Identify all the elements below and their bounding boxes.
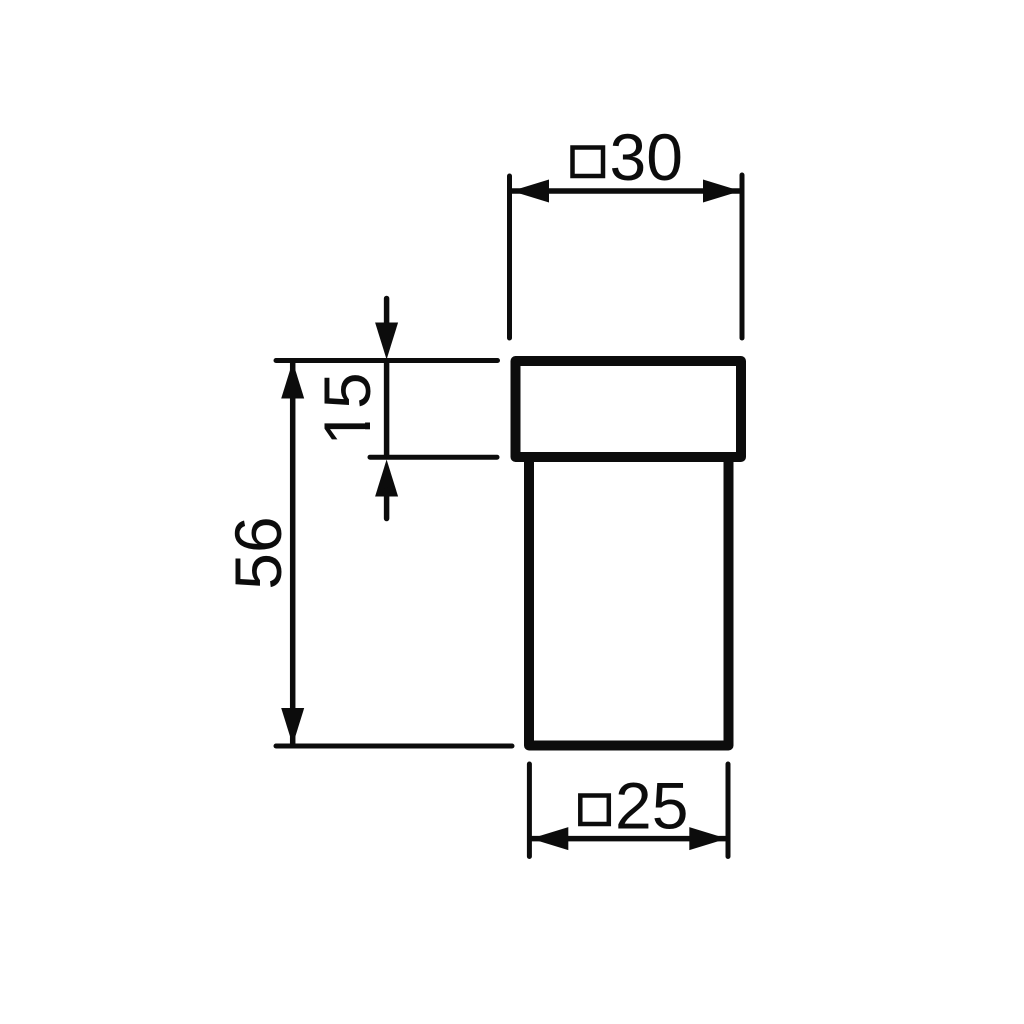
arrowhead right of 25 dim xyxy=(689,827,727,850)
arrowhead left of 30 dim xyxy=(512,180,550,203)
dim 15 lower tail xyxy=(384,490,390,519)
part collar (upper 30mm square section) xyxy=(516,361,742,457)
dimension line 56 xyxy=(290,363,296,744)
part body (lower 25mm square section) xyxy=(529,457,729,746)
extension line bottom-left vertical (for 25 dim) xyxy=(527,764,532,857)
extension line upper-left horizontal (top of part, for 56 and 15 dims) xyxy=(276,358,498,363)
extension line mid-left horizontal (collar bottom, for 15 dim) xyxy=(370,455,497,460)
white patch removing foot serif of digit 1 (upper side) xyxy=(364,410,371,422)
extension line top-right (for 30 dim) xyxy=(740,175,745,338)
svg-text:15: 15 xyxy=(310,372,384,445)
arrowhead down of 15 dim (above top line) xyxy=(375,323,398,360)
arrowhead up of 56 dim xyxy=(281,362,304,399)
extension line top-left (for 30 dim) xyxy=(507,176,512,338)
arrowhead right of 30 dim xyxy=(703,180,741,203)
dimension line 30 xyxy=(512,188,740,194)
dimension line 25 xyxy=(531,836,727,842)
label square symbol of 25 xyxy=(580,796,609,825)
label square symbol of 30 xyxy=(573,148,604,177)
svg-text:30: 30 xyxy=(610,120,683,194)
extension line bottom-right vertical (for 25 dim) xyxy=(726,764,731,857)
arrowhead left of 25 dim xyxy=(531,827,569,850)
arrowhead down of 56 dim xyxy=(281,708,304,745)
dim 15 middle segment xyxy=(384,361,390,458)
extension line bottom-left horizontal (part bottom, for 56 dim) xyxy=(276,744,512,749)
svg-text:25: 25 xyxy=(615,769,688,843)
dim 15 upper tail xyxy=(384,299,390,331)
arrowhead up of 15 dim (below collar-bottom line) xyxy=(375,460,398,497)
white patch removing foot serif of digit 1 (lower side) xyxy=(364,429,371,442)
svg-text:56: 56 xyxy=(221,516,295,589)
